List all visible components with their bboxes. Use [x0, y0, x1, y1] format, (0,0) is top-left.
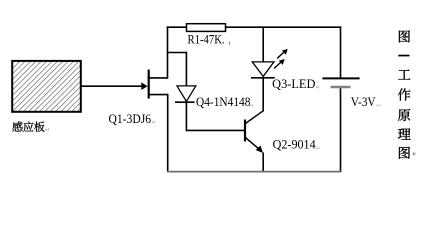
wire: LED anode lead from top rail	[262, 26, 264, 62]
label Q2-9014	[273, 138, 320, 152]
battery V negative plate (short gray bar)	[331, 86, 351, 89]
Q2 collector arm	[245, 111, 263, 124]
Q1 source lead	[148, 94, 168, 173]
wire: diode cathode lead down	[185, 102, 187, 131]
label Q1-3DJ6	[109, 112, 155, 126]
LED Q3 triangle	[252, 62, 274, 77]
wire: emitter down to bottom rail	[262, 153, 264, 173]
label V-3V	[351, 95, 381, 109]
Q1 drain lead	[148, 26, 168, 78]
LED light arrow 1	[277, 49, 288, 58]
label 感应板	[12, 121, 49, 131]
wire: battery bottom lead	[340, 88, 342, 172]
wire: bottom rail	[167, 171, 341, 173]
svg-text:Q2-9014: Q2-9014	[273, 138, 316, 152]
svg-text:Q1-3DJ6: Q1-3DJ6	[109, 112, 152, 126]
wire: battery top lead	[340, 26, 342, 77]
svg-text:Q3-LED: Q3-LED	[272, 77, 315, 91]
wire: diode anode lead	[185, 52, 187, 87]
wire: to Q2 base	[186, 129, 245, 131]
Q2 emitter arm with arrow	[245, 137, 263, 153]
wire: plate to Q1 gate (arrow)	[81, 82, 148, 90]
wire: top supply rail	[167, 26, 342, 28]
battery V positive plate (long bar)	[322, 77, 359, 79]
resistor R1 47K	[187, 24, 226, 32]
sensor plate (hatched box) 感应板	[12, 61, 81, 112]
transistor Q2 (9014) base bar	[244, 120, 246, 142]
svg-text:R1-47K.: R1-47K.	[188, 33, 225, 47]
label R1-47K	[188, 33, 231, 47]
diode Q4 cathode bar	[175, 101, 195, 103]
LED Q3 cathode bar	[251, 77, 275, 79]
svg-text:V-3V: V-3V	[351, 95, 376, 109]
transistor Q1 (JFET 3DJ6) channel bar	[148, 70, 150, 99]
label Q4-1N4148	[196, 95, 253, 109]
label Q3-LED	[272, 77, 319, 91]
svg-text:Q4-1N4148: Q4-1N4148	[196, 95, 250, 109]
LED light arrow 2	[274, 59, 285, 68]
wire: collector up to LED	[262, 77, 264, 111]
diode Q4 (1N4148) triangle	[177, 86, 196, 102]
caption 图一工作原理图 (vertical)	[398, 30, 416, 158]
wire: drain to D-branch	[167, 52, 187, 54]
